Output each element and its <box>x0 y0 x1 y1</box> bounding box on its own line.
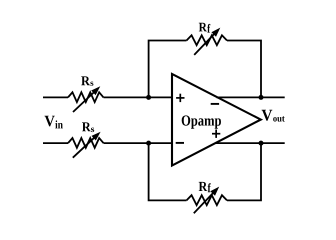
wire bottom feedback loop <box>149 143 261 200</box>
wire bottom output <box>216 142 285 144</box>
resistor Rs (bottom, variable) <box>68 132 104 158</box>
resistor Rf (bottom, variable) <box>187 187 228 214</box>
node top-right junction <box>259 95 264 100</box>
label Rf (bottom) <box>199 182 211 192</box>
label Rf (top) <box>199 23 210 33</box>
wire top input lead right <box>104 96 173 98</box>
wire bottom input lead right <box>104 142 173 144</box>
resistor Rf (top, variable) <box>187 28 228 55</box>
label Opamp <box>182 115 221 128</box>
wire top feedback loop <box>149 41 261 98</box>
label Vin <box>44 116 62 129</box>
label Rs (bottom) <box>82 122 94 132</box>
wire top input lead left <box>43 96 68 98</box>
pin - (top-right, inverted output) <box>211 103 219 105</box>
node bottom-right junction <box>259 141 264 146</box>
node top-left junction <box>146 95 151 100</box>
wire top output <box>217 96 285 98</box>
node bottom-left junction <box>146 141 151 146</box>
pin + (bottom-right, non-inverted output) <box>212 130 220 138</box>
label Rs (top) <box>81 76 93 85</box>
op-amp U1 <box>172 74 261 166</box>
pin - (bottom-left, inverting input) <box>176 142 184 144</box>
pin + (top-left, non-inverting input) <box>176 94 184 102</box>
label Vout <box>262 110 285 122</box>
resistor Rs (top, variable) <box>68 86 104 112</box>
wire bottom input lead left <box>43 142 68 144</box>
